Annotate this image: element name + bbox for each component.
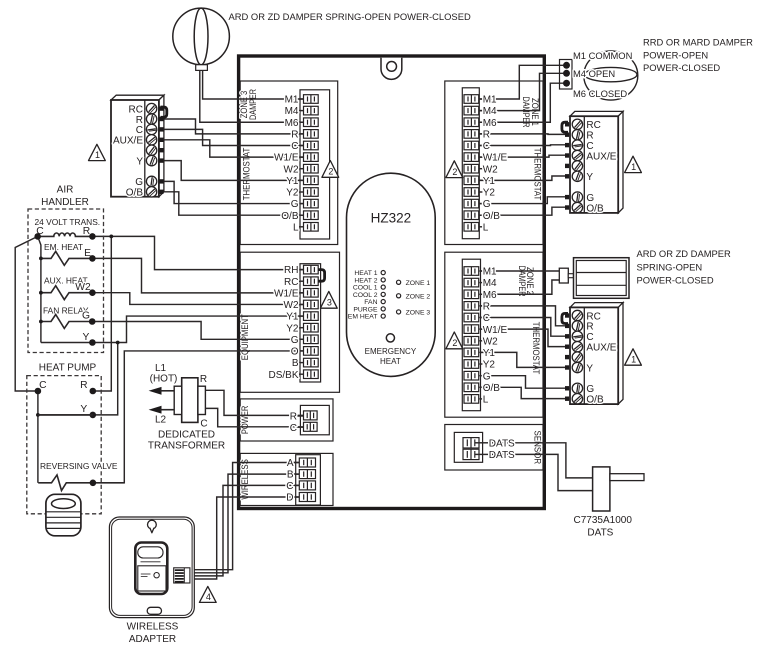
svg-text:ZONE 3: ZONE 3 xyxy=(406,309,431,316)
svg-text:B: B xyxy=(287,470,294,481)
wire: zone1 G to thermostat1 G xyxy=(479,197,566,204)
svg-text:COOL 2: COOL 2 xyxy=(353,292,378,299)
svg-text:AIR: AIR xyxy=(57,184,74,195)
wire: transformer R to power R xyxy=(205,390,303,415)
wireless adapter xyxy=(109,517,194,618)
svg-text:DATS: DATS xyxy=(587,528,613,539)
junction R rail xyxy=(109,235,113,239)
wire: zone2 W1/E to thermostat2 AUX/E xyxy=(481,329,567,346)
wire: zone1 O/B to thermostat1 O/B xyxy=(479,207,566,215)
wire: thermostat3 Y to zone3 Y1 xyxy=(164,161,304,181)
svg-text:M4: M4 xyxy=(483,278,497,289)
svg-text:A: A xyxy=(287,458,294,469)
note triangle 2 (zone 2 block) xyxy=(446,332,463,349)
zone 2 terminal labels xyxy=(483,267,508,406)
svg-text:G: G xyxy=(483,371,491,382)
LED column HEAT/COOL/FAN/PURGE/EM HEAT xyxy=(348,270,386,321)
svg-text:Y: Y xyxy=(82,332,89,343)
wire: zone1 M4 to RRD damper M4 xyxy=(479,73,563,110)
zone 3 damper (ARD/ZD ball symbol) xyxy=(173,8,230,70)
svg-text:C: C xyxy=(291,141,298,152)
equipment terminal block xyxy=(240,252,339,392)
HZ322 stadium outline xyxy=(347,173,436,376)
svg-text:R: R xyxy=(136,115,143,126)
wire: heat pump C down to reversing valve xyxy=(37,391,39,483)
net label SENSOR xyxy=(532,431,542,465)
svg-text:Y2: Y2 xyxy=(286,323,299,334)
net label ZONE 2 DAMPER xyxy=(517,266,535,297)
svg-text:O/B: O/B xyxy=(483,211,501,222)
zone 2 terminal block xyxy=(445,252,543,417)
svg-text:HZ322: HZ322 xyxy=(371,211,412,226)
svg-text:R: R xyxy=(483,302,490,313)
node Y (air handler) xyxy=(82,332,95,346)
reversing valve xyxy=(38,461,124,491)
relay AUX. HEAT xyxy=(39,275,92,299)
svg-text:RC: RC xyxy=(129,104,143,115)
thermostat U3 (zone 3, left) xyxy=(111,95,164,197)
wire: air handler relay common rail xyxy=(38,236,41,342)
note triangle 2 (zone 1 block) xyxy=(446,161,463,178)
svg-text:B: B xyxy=(292,358,299,369)
svg-text:W1/E: W1/E xyxy=(274,153,299,164)
node C (heat pump) xyxy=(35,380,47,394)
node M6 CLOSED xyxy=(563,80,627,99)
pin labels thermostat U1 (zone 1, right top) xyxy=(586,120,616,214)
jumper thermostat U2 (zone 2, right bottom) RC-R xyxy=(562,313,568,323)
mounting tab with hole xyxy=(381,58,402,80)
wire: thermostat3 O/B to zone3 O/B xyxy=(164,192,304,215)
svg-text:RH: RH xyxy=(284,265,298,276)
wire: common rail C (air handler to heat pump) xyxy=(15,236,38,391)
transformer pin R xyxy=(200,374,207,385)
wire: adapter to wireless C xyxy=(190,485,300,576)
net label POWER xyxy=(240,406,250,435)
sensor terminal block (DATS) xyxy=(445,425,543,471)
svg-text:C: C xyxy=(483,141,490,152)
zone 1 terminal block xyxy=(445,81,543,245)
net label EQUIPMENT xyxy=(240,314,250,361)
svg-text:HEAT PUMP: HEAT PUMP xyxy=(39,363,97,374)
node R (air handler) xyxy=(83,226,96,240)
svg-text:C: C xyxy=(200,418,207,429)
wire: zone3 damper ball to M6 xyxy=(200,70,304,122)
note triangle 1 (zone 2 thermostat) xyxy=(625,349,642,365)
L2 feed arrow xyxy=(149,406,175,426)
wire: zone1 Y1 to thermostat1 Y xyxy=(479,176,566,180)
wire: air handler R to equipment RH (with heat pump R tap) xyxy=(92,236,303,269)
label WIRELESS ADAPTER xyxy=(127,622,179,646)
wire: zone2 M1 to ARD damper connector xyxy=(481,270,560,272)
wireless terminal block xyxy=(240,453,333,505)
wire: transformer C to power C xyxy=(205,408,303,426)
svg-text:Y2: Y2 xyxy=(483,360,496,371)
wire: zone1 C to thermostat1 C xyxy=(479,144,566,147)
svg-text:2: 2 xyxy=(328,167,333,177)
node E (air handler) xyxy=(84,248,96,262)
dedicated transformer T2 xyxy=(174,378,205,423)
svg-text:RRD OR MARD DAMPER: RRD OR MARD DAMPER xyxy=(643,36,753,47)
svg-text:RC: RC xyxy=(586,120,600,131)
wire: zone1 M1 to RRD damper M1 xyxy=(479,65,563,99)
note triangle 2 (zone 3 block) xyxy=(322,161,339,178)
svg-text:G: G xyxy=(586,193,594,204)
svg-text:W1/E: W1/E xyxy=(483,325,508,336)
LED column ZONE 1-3 xyxy=(397,280,431,317)
svg-text:C: C xyxy=(290,423,297,434)
svg-text:1: 1 xyxy=(95,150,100,160)
svg-text:ZONE 1: ZONE 1 xyxy=(406,280,431,287)
air handler enclosure xyxy=(28,184,104,352)
svg-text:L: L xyxy=(483,395,489,406)
svg-text:DAMPER: DAMPER xyxy=(248,89,258,120)
svg-text:R: R xyxy=(586,131,593,142)
wire: zone2 G to thermostat2 G xyxy=(481,376,567,389)
svg-text:THERMOSTAT: THERMOSTAT xyxy=(533,148,543,201)
svg-text:O/B: O/B xyxy=(126,188,144,199)
wire: zone2 M6 to ARD damper connector xyxy=(481,280,560,294)
svg-text:THERMOSTAT: THERMOSTAT xyxy=(242,147,252,200)
svg-text:AUX/E: AUX/E xyxy=(586,151,616,162)
svg-text:2: 2 xyxy=(452,167,457,177)
svg-text:4: 4 xyxy=(206,592,211,602)
svg-text:M1: M1 xyxy=(483,95,497,106)
C7735A1000 DATS sensor xyxy=(593,467,644,511)
ARD or ZD damper (zone 2, rectangular symbol) xyxy=(559,258,629,299)
node R (heat pump) xyxy=(80,380,96,394)
zone 3 terminal block xyxy=(240,81,338,245)
wire: thermostat3 R to zone3 R xyxy=(164,119,304,134)
thermostat U2 (zone 2, right bottom) xyxy=(565,303,623,405)
zone 1 terminal labels xyxy=(483,95,508,234)
svg-text:G: G xyxy=(483,199,491,210)
svg-text:AUX/E: AUX/E xyxy=(113,136,143,147)
svg-text:DS/BK: DS/BK xyxy=(268,370,298,381)
svg-text:EM. HEAT: EM. HEAT xyxy=(44,242,83,252)
wire: thermostat3 C to zone3 C xyxy=(164,129,304,145)
transformer T1 24 VOLT TRANS xyxy=(35,217,101,236)
net label WIRELESS xyxy=(240,459,250,500)
svg-text:ARD OR ZD DAMPER SPRING-OPEN P: ARD OR ZD DAMPER SPRING-OPEN POWER-CLOSE… xyxy=(229,11,471,22)
svg-text:G: G xyxy=(82,311,90,322)
svg-text:Y1: Y1 xyxy=(483,176,496,187)
svg-text:(HOT): (HOT) xyxy=(150,374,178,385)
svg-text:Y: Y xyxy=(136,156,143,167)
zone 3 terminal labels xyxy=(274,95,299,234)
svg-text:G: G xyxy=(291,335,299,346)
svg-text:REVERSING VALVE: REVERSING VALVE xyxy=(40,461,118,471)
svg-text:W2: W2 xyxy=(483,336,498,347)
svg-text:RC: RC xyxy=(284,277,298,288)
label ARD OR ZD DAMPER SPRING-OPEN POWER-CLOSED (right) xyxy=(637,248,732,285)
label DEDICATED TRANSFORMER xyxy=(148,429,225,451)
RRD or MARD damper symbol xyxy=(560,51,638,100)
wire: thermostat3 AUX/E to zone3 W1/E xyxy=(164,140,304,157)
svg-text:C: C xyxy=(286,481,293,492)
svg-text:W2: W2 xyxy=(284,300,299,311)
svg-text:POWER-OPEN: POWER-OPEN xyxy=(643,50,708,61)
svg-text:G: G xyxy=(586,384,594,395)
svg-text:R: R xyxy=(83,226,90,237)
svg-text:O: O xyxy=(291,347,299,358)
wire: sensor DATS terminal 1 to C7735 sensor xyxy=(490,443,593,478)
svg-text:Y: Y xyxy=(586,363,593,374)
net label ZONE 3 DAMPER xyxy=(239,89,258,120)
svg-text:C7735A1000: C7735A1000 xyxy=(574,515,633,526)
svg-text:C: C xyxy=(136,125,143,136)
svg-text:EMERGENCY: EMERGENCY xyxy=(365,347,417,356)
svg-text:DAMPER: DAMPER xyxy=(517,266,527,297)
wire: heat pump Y riser xyxy=(38,343,118,415)
label ARD OR ZD DAMPER SPRING-OPEN POWER-CLOSED (top) xyxy=(229,11,471,22)
svg-text:FAN: FAN xyxy=(364,299,377,306)
pin labels thermostat 3 xyxy=(113,104,143,198)
svg-text:WIRELESS: WIRELESS xyxy=(127,622,179,633)
svg-text:R: R xyxy=(291,130,298,141)
node C (air handler) xyxy=(34,226,44,240)
svg-text:G: G xyxy=(291,199,299,210)
svg-text:Y1: Y1 xyxy=(286,312,299,323)
note triangle 1 (left) xyxy=(89,144,106,160)
compressor xyxy=(46,494,81,536)
adapter wire connector xyxy=(174,568,190,583)
svg-text:O/B: O/B xyxy=(281,211,299,222)
svg-text:L: L xyxy=(483,222,489,233)
svg-text:M1 COMMON: M1 COMMON xyxy=(573,50,632,61)
svg-text:PURGE: PURGE xyxy=(353,306,378,313)
svg-text:M4: M4 xyxy=(285,106,299,117)
svg-text:POWER: POWER xyxy=(240,406,250,435)
svg-text:EM HEAT: EM HEAT xyxy=(348,314,378,321)
svg-text:SENSOR: SENSOR xyxy=(532,431,542,465)
transformer pin C xyxy=(200,418,207,429)
node W2 (air handler) xyxy=(75,282,95,296)
wire: adapter to wireless A xyxy=(190,463,300,570)
svg-text:24 VOLT TRANS.: 24 VOLT TRANS. xyxy=(35,217,101,227)
svg-text:ADAPTER: ADAPTER xyxy=(129,634,176,645)
wire: air handler E to equipment W1/E xyxy=(92,258,303,292)
junction Y rail xyxy=(116,341,120,345)
svg-text:O/B: O/B xyxy=(586,203,604,214)
node G (air handler) xyxy=(82,311,96,325)
svg-text:SPRING-OPEN: SPRING-OPEN xyxy=(637,261,703,272)
svg-text:M4: M4 xyxy=(483,106,497,117)
svg-text:M6: M6 xyxy=(483,290,497,301)
wire: air handler G to equipment G xyxy=(92,322,303,340)
svg-text:C: C xyxy=(483,313,490,324)
equipment terminal labels xyxy=(268,265,298,381)
net label THERMOSTAT (zone 3) xyxy=(242,147,252,200)
emergency heat button xyxy=(365,334,417,366)
wire: zone1 M6 to RRD damper M6 xyxy=(479,83,563,122)
wire: air handler Y / heat pump Y to equipment Y1 xyxy=(41,316,304,342)
node M4 OPEN xyxy=(563,68,615,79)
svg-text:M1: M1 xyxy=(483,267,497,278)
power terminal block xyxy=(240,399,333,441)
svg-text:M1: M1 xyxy=(285,95,299,106)
svg-text:Y: Y xyxy=(586,172,593,183)
note triangle 1 (zone 1 thermostat) xyxy=(625,156,642,172)
svg-text:Y: Y xyxy=(80,404,87,415)
thermostat U1 (zone 1, right top) xyxy=(565,111,623,212)
svg-text:ARD OR ZD DAMPER: ARD OR ZD DAMPER xyxy=(637,248,732,259)
wire: zone1 W1/E to thermostat1 AUX/E xyxy=(479,155,566,157)
svg-text:DATS: DATS xyxy=(489,438,515,449)
power terminal labels xyxy=(290,412,297,434)
label RRD OR MARD DAMPER POWER-OPEN POWER-CLOSED xyxy=(643,36,753,73)
svg-text:POWER-CLOSED: POWER-CLOSED xyxy=(643,62,720,73)
jumper thermostat U1 (zone 1, right top) RC-R xyxy=(562,122,568,132)
svg-text:W2: W2 xyxy=(483,164,498,175)
net label ZONE 1 DAMPER xyxy=(521,97,540,128)
svg-text:L1: L1 xyxy=(155,363,167,374)
wire: adapter to wireless B xyxy=(190,474,300,573)
svg-text:WIRELESS: WIRELESS xyxy=(240,459,250,500)
svg-text:M6: M6 xyxy=(285,118,299,129)
svg-text:1: 1 xyxy=(631,355,636,365)
svg-text:DATS: DATS xyxy=(489,450,515,461)
svg-text:L: L xyxy=(293,222,299,233)
svg-text:Y1: Y1 xyxy=(286,176,299,187)
svg-text:R: R xyxy=(200,374,207,385)
net label THERMOSTAT (zone 2) xyxy=(531,322,541,375)
svg-text:R: R xyxy=(483,130,490,141)
svg-text:L2: L2 xyxy=(155,414,167,425)
svg-text:M4 OPEN: M4 OPEN xyxy=(573,68,615,79)
svg-text:Y1: Y1 xyxy=(483,348,496,359)
label C7735A1000 DATS xyxy=(574,515,633,539)
svg-text:D: D xyxy=(286,493,293,504)
wire: zone1 R to thermostat1 R xyxy=(479,133,566,136)
svg-text:O/B: O/B xyxy=(586,395,604,406)
wire: air handler W2 to equipment W2 xyxy=(92,293,303,305)
svg-text:R: R xyxy=(586,322,593,333)
relay EM. HEAT xyxy=(39,242,92,265)
svg-text:W2: W2 xyxy=(284,164,299,175)
node Y (heat pump) xyxy=(36,404,96,418)
pin labels thermostat U2 (zone 2, right bottom) xyxy=(586,311,616,405)
svg-text:M6 CLOSED: M6 CLOSED xyxy=(573,88,627,99)
svg-text:R: R xyxy=(80,380,87,391)
HZ322 panel enclosure xyxy=(239,56,545,509)
svg-text:G: G xyxy=(135,177,143,188)
svg-text:R: R xyxy=(290,412,297,423)
note triangle 3 (equipment block) xyxy=(320,291,337,308)
wire: zone2 O/B to thermostat2 O/B xyxy=(481,387,567,398)
svg-text:HEAT 2: HEAT 2 xyxy=(354,277,377,284)
svg-text:2: 2 xyxy=(452,338,457,348)
node M1 COMMON xyxy=(563,50,632,69)
wire: zone2 Y1 to thermostat2 Y xyxy=(481,352,567,367)
svg-text:3: 3 xyxy=(327,298,332,308)
wire: sensor DATS terminal 2 to C7735 sensor xyxy=(490,454,593,490)
L1 (HOT) feed arrow xyxy=(149,363,178,395)
wire: zone3 damper ball to M1 xyxy=(203,70,304,99)
wireless terminal labels xyxy=(286,458,294,504)
jumper RH-RC xyxy=(318,270,324,282)
svg-text:DEDICATED: DEDICATED xyxy=(158,429,215,440)
svg-text:COOL 1: COOL 1 xyxy=(353,285,378,292)
svg-text:Y2: Y2 xyxy=(483,188,496,199)
svg-text:RC: RC xyxy=(586,311,600,322)
svg-text:C: C xyxy=(586,332,593,343)
net label THERMOSTAT (zone 1) xyxy=(533,148,543,201)
svg-text:W1/E: W1/E xyxy=(483,153,508,164)
sensor terminal labels DATS xyxy=(489,438,515,461)
heat pump enclosure xyxy=(27,363,101,514)
svg-text:TRANSFORMER: TRANSFORMER xyxy=(148,440,225,451)
svg-text:HEAT: HEAT xyxy=(380,357,401,366)
svg-text:W2: W2 xyxy=(75,282,91,293)
svg-text:EQUIPMENT: EQUIPMENT xyxy=(240,314,250,361)
svg-text:M6: M6 xyxy=(483,118,497,129)
wire: zone2 C to thermostat2 C xyxy=(481,318,567,337)
wire: adapter to wireless D xyxy=(190,497,300,579)
wire: zone2 R to thermostat2 R xyxy=(481,306,567,326)
note triangle 4 (wireless adapter) xyxy=(199,586,216,602)
jumper thermostat3 RC-R xyxy=(161,107,167,117)
wire: reversing valve to equipment O xyxy=(93,351,304,483)
svg-text:1: 1 xyxy=(631,162,636,172)
relay FAN RELAY xyxy=(39,305,92,328)
svg-text:AUX/E: AUX/E xyxy=(586,343,616,354)
svg-text:ZONE 2: ZONE 2 xyxy=(406,293,431,300)
svg-text:HANDLER: HANDLER xyxy=(41,197,89,208)
wire: heat pump R riser xyxy=(93,236,112,391)
svg-text:O/B: O/B xyxy=(483,383,501,394)
svg-text:HEAT 1: HEAT 1 xyxy=(354,270,377,277)
wire: thermostat3 G to zone3 G xyxy=(164,181,304,203)
svg-text:POWER-CLOSED: POWER-CLOSED xyxy=(637,274,714,285)
svg-text:W1/E: W1/E xyxy=(274,288,299,299)
svg-text:Y2: Y2 xyxy=(286,188,299,199)
svg-text:C: C xyxy=(586,141,593,152)
